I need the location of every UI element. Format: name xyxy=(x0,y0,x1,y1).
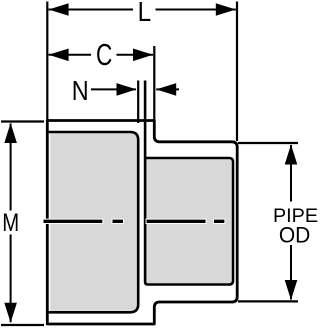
svg-text:OD: OD xyxy=(279,223,310,248)
svg-text:M: M xyxy=(2,208,19,237)
svg-text:N: N xyxy=(72,76,89,106)
svg-text:L: L xyxy=(138,0,152,27)
svg-text:C: C xyxy=(96,38,112,72)
